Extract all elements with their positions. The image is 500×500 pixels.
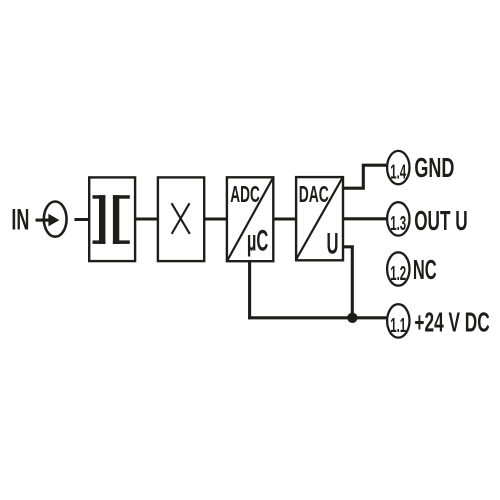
- svg-text:µC: µC: [247, 225, 268, 258]
- svg-text:GND: GND: [414, 152, 454, 183]
- svg-text:U: U: [327, 228, 339, 261]
- svg-text:DAC: DAC: [299, 181, 329, 207]
- svg-text:IN: IN: [11, 204, 29, 237]
- svg-text:OUT U: OUT U: [414, 205, 467, 236]
- svg-text:1.1: 1.1: [390, 315, 406, 337]
- svg-text:NC: NC: [413, 254, 437, 285]
- svg-text:1.4: 1.4: [390, 162, 406, 184]
- svg-text:1.2: 1.2: [390, 263, 406, 285]
- svg-text:1.3: 1.3: [390, 213, 406, 235]
- svg-text:+24 V DC: +24 V DC: [414, 307, 489, 338]
- svg-text:ADC: ADC: [230, 181, 259, 207]
